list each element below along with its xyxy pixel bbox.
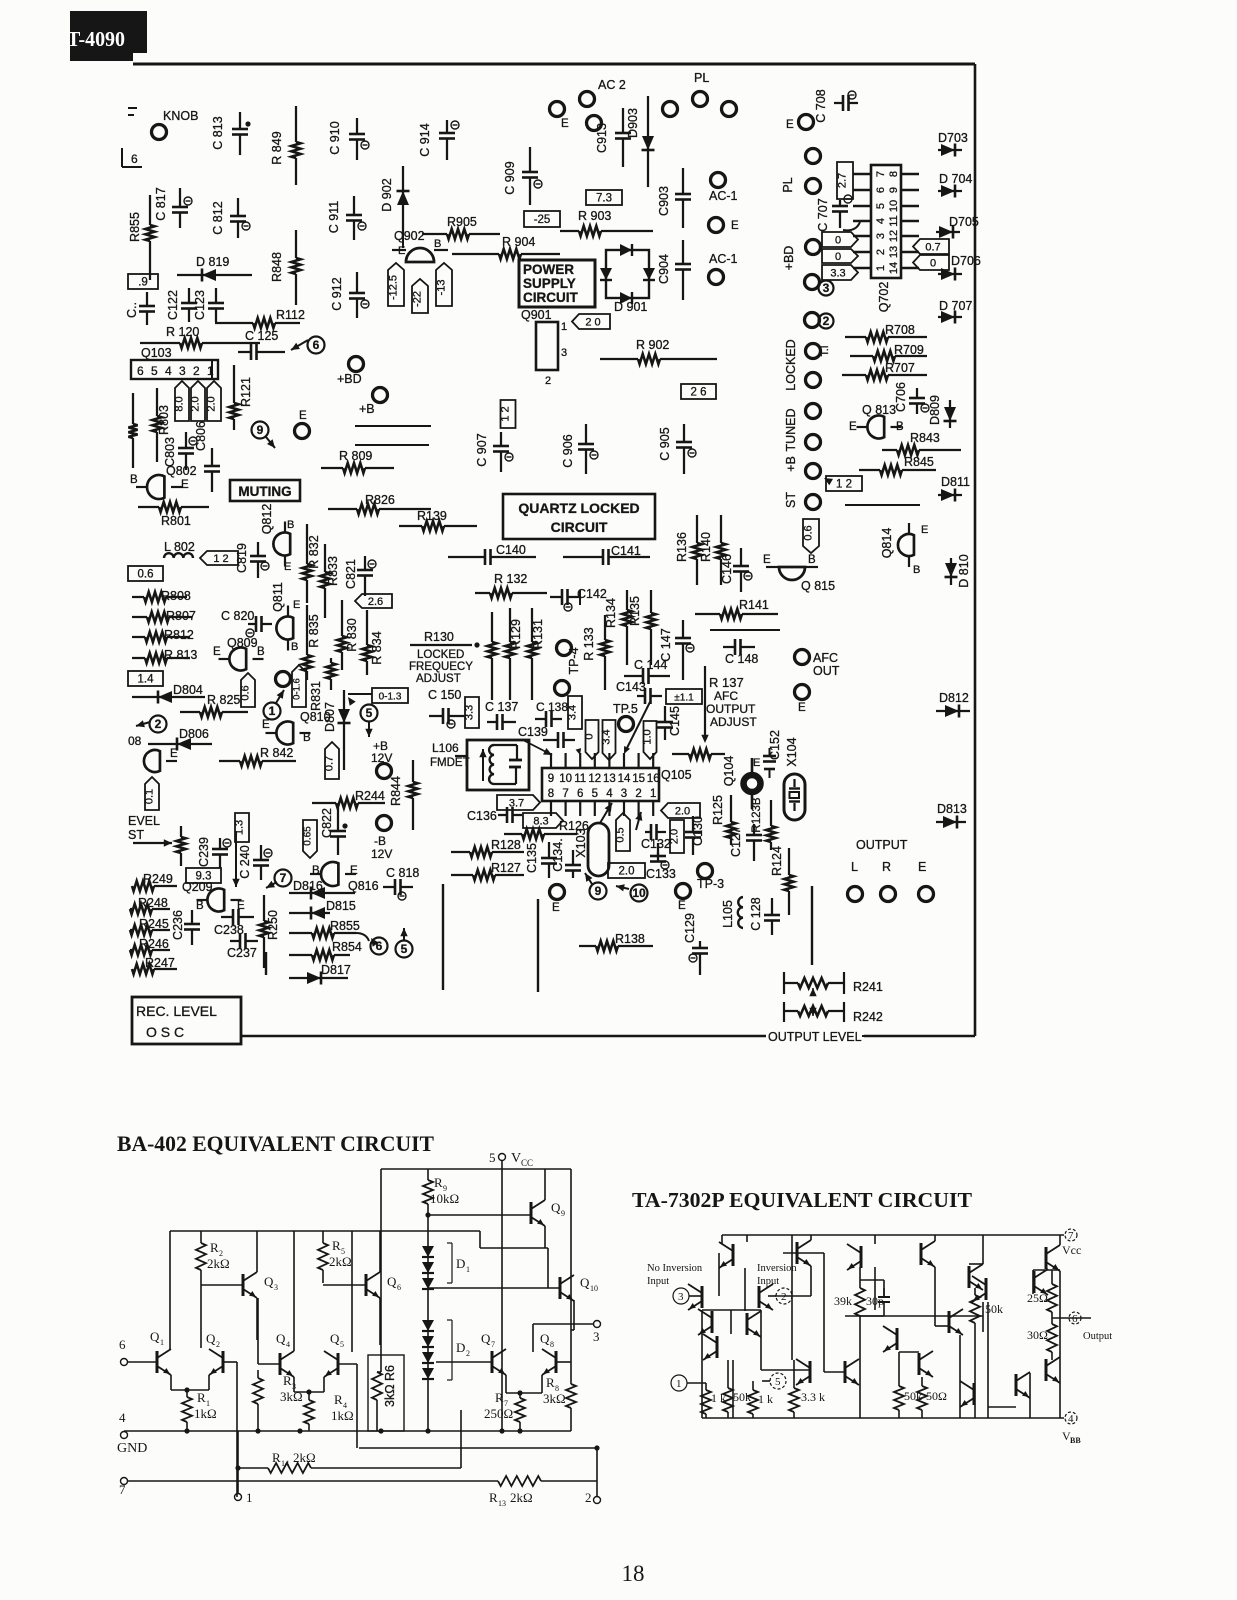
svg-text:.9: .9 [138,277,148,289]
resistor R813 [132,648,197,663]
inductor L802 [164,540,195,558]
value box 0.7 [913,239,949,254]
svg-text:E: E [678,900,686,912]
svg-text:C135: C135 [525,843,539,873]
transistor Q8 [540,1331,571,1375]
svg-text:6: 6 [397,1283,401,1292]
svg-text:E: E [753,757,760,769]
capacitor C148 [723,639,758,666]
value box 0.1 [144,777,160,810]
svg-text:10: 10 [888,200,900,212]
capacitor C125 [238,329,285,360]
svg-text:R136: R136 [675,532,689,562]
capacitor C912 [330,272,369,318]
pad +B 12V [371,739,392,779]
svg-text:C..: C.. [125,302,139,318]
svg-text:ST: ST [784,492,798,508]
resistor R134 [604,590,632,665]
svg-text:T-4090: T-4090 [67,27,125,51]
transistor Q2 [201,1283,223,1375]
capacitor C124 cut [125,292,155,325]
crystal X103 [574,823,609,876]
diode D819 [177,255,252,282]
pad -B 12V [371,816,392,862]
svg-text:14: 14 [618,773,631,785]
page number 18 [622,1561,645,1586]
resistor R843 [882,431,961,455]
pad E muting [295,410,310,439]
resistor R123B [751,797,776,850]
value box 0 b [822,249,858,263]
svg-text:D903: D903 [626,108,640,138]
svg-text:10kΩ: 10kΩ [430,1191,459,1206]
capacitor C141 [563,544,650,565]
svg-text:1: 1 [676,1378,682,1390]
diode D813 [936,802,967,829]
svg-text:2kΩ: 2kΩ [207,1256,230,1271]
diode D811 [938,475,970,502]
value box 20 [572,314,610,329]
svg-text:1.4: 1.4 [138,674,155,686]
svg-text:C913: C913 [595,123,609,153]
svg-text:C146: C146 [720,554,734,584]
title block T-4090 [67,11,147,61]
svg-text:Q814: Q814 [880,528,894,559]
resistor R845 [859,455,936,475]
svg-text:PL: PL [781,177,795,192]
pad +BD right [782,240,821,271]
svg-text:3.4: 3.4 [567,705,579,720]
value box .9 [128,274,158,289]
svg-text:2kΩ: 2kΩ [293,1450,316,1465]
svg-text:3.3: 3.3 [464,705,476,720]
svg-text:10: 10 [632,886,646,900]
svg-text:TP-3: TP-3 [697,877,724,891]
svg-text:13: 13 [498,1499,506,1508]
IC Q702 [853,165,919,312]
pad TUNED [784,408,821,451]
pad E q105 left [550,885,565,915]
wire bd1 [355,425,431,427]
transistor Q209 [182,880,245,912]
svg-text:FMDET: FMDET [430,757,470,769]
svg-text:+B: +B [359,402,375,416]
capacitor C911 [327,196,366,240]
ta transistor t8 [1034,1269,1048,1295]
svg-text:1: 1 [246,1490,253,1505]
svg-text:9: 9 [548,773,554,785]
svg-text:D807: D807 [323,702,337,732]
resistor R855b [289,919,369,941]
svg-text:D 704: D 704 [939,172,972,186]
svg-text:C 707: C 707 [816,198,830,231]
title TA-7302P [632,1188,972,1212]
value box 1.1 [666,689,702,704]
svg-text:Q: Q [150,1329,160,1344]
resistor R126 [504,819,589,839]
svg-text:2 0: 2 0 [585,317,600,329]
svg-text:C236: C236 [171,910,185,940]
svg-text:8: 8 [550,1340,554,1349]
svg-text:E: E [918,860,926,874]
svg-text:E: E [798,702,806,714]
board outline bottom border [241,1035,975,1037]
resistor R121 [229,365,253,430]
capacitor C708 [814,89,858,122]
svg-text:AC-1: AC-1 [709,252,738,266]
ta resistor 50k upper [970,1288,1003,1418]
resistor R809 [321,449,394,473]
svg-text:R833: R833 [326,556,340,586]
svg-text:C803: C803 [163,437,177,467]
transistor Q9 [425,1169,565,1248]
svg-text:TP.5: TP.5 [613,702,638,716]
capacitor C706 [894,382,929,414]
svg-text:R 904: R 904 [502,235,535,249]
capacitor C819 [235,542,269,578]
svg-text:C821: C821 [344,559,358,589]
resistor R826 [328,493,431,514]
label no inversion input [647,1263,703,1287]
svg-text:3kΩ: 3kΩ [280,1389,303,1404]
pointer 1 [264,690,285,720]
ta transistor t3 [847,1244,861,1270]
svg-text:0-1.6: 0-1.6 [292,678,303,700]
svg-text:1 2: 1 2 [500,406,512,421]
resistor R140 [699,515,726,585]
svg-text:E: E [849,421,857,433]
capacitor C128 [749,897,780,935]
svg-text:1: 1 [875,265,887,271]
resistor R13 2k [489,1476,597,1508]
wire ta bottom rail [702,1417,1064,1419]
svg-text:2.0: 2.0 [619,866,635,878]
svg-text:R123B: R123B [751,797,763,832]
diode D704 [938,172,972,198]
node 6 cut box [122,148,142,167]
value box 3.3 mid [464,697,480,728]
svg-text:C134.: C134. [551,838,565,871]
svg-text:D: D [456,1256,465,1271]
svg-text:0.5: 0.5 [615,827,627,842]
svg-text:R: R [546,1375,555,1390]
IC Q105 [542,753,692,816]
svg-text:4: 4 [165,364,172,378]
svg-text:1: 1 [466,1265,470,1274]
capacitor C818 [383,866,419,900]
svg-text:8: 8 [888,171,900,177]
value box 12 left [200,551,238,565]
label OUTPUT LEVEL [768,1030,872,1044]
svg-text:39k: 39k [834,1294,852,1308]
svg-text:AFC: AFC [714,689,738,703]
resistor r137 body [672,749,725,759]
svg-text:D706: D706 [951,254,981,268]
svg-text:R: R [489,1490,498,1505]
svg-text:C 907: C 907 [475,433,489,466]
svg-text:E: E [786,119,794,131]
svg-text:-12.5: -12.5 [388,275,400,300]
svg-text:5: 5 [340,1340,344,1349]
transistor Q802 [130,464,197,499]
svg-text:R244: R244 [355,789,385,803]
capacitor C909 [503,147,542,205]
svg-text:D806: D806 [179,727,209,741]
value box 0.6 right [803,519,820,553]
capacitor C907 [475,432,513,472]
resistor R9 10k [423,1169,459,1243]
resistor R124 [770,846,794,915]
svg-text:B: B [312,865,320,877]
pad AFC OUT [795,650,840,679]
svg-text:B: B [434,238,441,250]
svg-text:C 125: C 125 [245,329,278,343]
svg-text:CC: CC [521,1158,533,1168]
terminal 1 [235,1431,253,1505]
resistor R249 [132,872,177,891]
transistor Q4 [258,1231,294,1377]
svg-text:Q: Q [481,1331,491,1346]
svg-text:D804: D804 [173,683,203,697]
svg-text:Q105: Q105 [661,768,692,782]
svg-text:R708: R708 [885,323,915,337]
svg-text:R138: R138 [615,932,645,946]
value box 7.3 [586,190,622,205]
svg-text:4: 4 [875,218,887,224]
capacitor C136 [467,807,522,823]
svg-text:C127: C127 [729,827,743,857]
svg-text:3.4: 3.4 [601,729,613,744]
transistor Q816 [293,862,379,893]
svg-text:C 912: C 912 [330,277,344,310]
svg-text:2.0: 2.0 [675,806,690,818]
svg-text:PL: PL [694,71,709,85]
ta transistor t5 [969,1264,983,1290]
transistor Q812 [260,504,294,573]
svg-text:D811: D811 [941,475,970,489]
wire q5 base net [338,1364,357,1448]
capacitor C910 [328,118,369,160]
value box 2.6 [355,594,392,608]
transistor Q814 [880,523,928,576]
svg-text:D703: D703 [938,131,968,145]
capacitor C913 [595,108,631,167]
resistor R903 [560,209,653,236]
value box -12.5 [388,263,405,306]
label OUTPUT [856,838,908,852]
value box 0-1.6 [292,665,307,707]
svg-text:6: 6 [875,187,887,193]
capacitor C133 [646,843,676,881]
ta transistor t2 [797,1240,811,1266]
value box 8.3 [523,813,563,828]
svg-text:-B: -B [374,834,386,848]
pad out R [881,860,896,902]
pad AC2 [580,78,626,107]
svg-text:E: E [170,748,178,760]
svg-text:CIRCUIT: CIRCUIT [523,290,578,305]
pointer 5 mid [361,705,378,738]
svg-text:R250: R250 [266,910,280,940]
pointer 5b [396,928,413,958]
svg-text:5: 5 [366,706,373,720]
resistor R825 [180,693,248,717]
capacitor C906 [561,424,598,474]
svg-text:Q812: Q812 [260,504,274,535]
svg-text:1: 1 [650,788,656,800]
svg-text:C 820: C 820 [221,609,254,623]
value box 0.7 mid [324,742,340,779]
pad +B right [784,456,821,478]
resistor R842 [219,746,296,766]
svg-text:0.1: 0.1 [144,789,156,804]
pad LOCKED [784,339,821,390]
svg-text:C903: C903 [657,186,671,216]
preset R242 [784,1002,883,1024]
svg-text:3.7: 3.7 [509,798,524,810]
svg-text:L 802: L 802 [164,540,195,554]
svg-text:R707: R707 [885,361,915,375]
svg-text:R 132: R 132 [494,572,527,586]
svg-text:C 708: C 708 [814,89,828,122]
pad ac3 [587,116,602,131]
pad TP-4 bottom [555,681,570,696]
svg-text:L: L [851,860,858,874]
svg-text:1: 1 [269,704,276,718]
terminal 2 input [768,1288,792,1304]
svg-text:5: 5 [489,1150,496,1165]
svg-text:Q: Q [276,1331,286,1346]
capacitor C139 cut [518,725,575,755]
power supply circuit box [519,260,595,307]
resistor R125 [711,795,736,845]
svg-text:C 137: C 137 [485,700,518,714]
resistor R130 adjust [409,612,497,700]
resistor R904 [452,235,560,259]
svg-text:Vcc: Vcc [1062,1243,1081,1257]
capacitor C134 [551,838,581,878]
label inversion input [757,1263,797,1287]
svg-text:3: 3 [823,281,830,295]
svg-text:3: 3 [274,1283,278,1292]
svg-text:3: 3 [179,364,186,378]
svg-text:R844: R844 [389,776,403,806]
wire ta top rail [722,1234,1064,1236]
svg-text:13: 13 [603,773,616,785]
wire vert r250 [265,952,267,975]
svg-text:T.I: T.I [819,345,831,356]
capacitor C238 [214,909,254,937]
capacitor C143 [616,680,662,704]
svg-text:7: 7 [491,1340,495,1349]
wire q1q2 emitters [171,1375,209,1393]
value box 1.3 left [234,813,250,842]
svg-text:1: 1 [160,1338,164,1347]
capacitor C150 [428,688,465,728]
svg-text:R241: R241 [853,980,883,994]
capacitor C803 [163,432,197,470]
svg-text:R128: R128 [491,838,521,852]
svg-text:ADJUST: ADJUST [416,673,461,685]
svg-text:2: 2 [585,1490,592,1505]
terminal 5 Vcc [489,1150,533,1431]
resistor R708 [845,323,927,342]
resistor R801 [138,502,209,528]
svg-text:C706: C706 [894,382,908,412]
svg-text:2kΩ: 2kΩ [329,1254,352,1269]
svg-text:Input: Input [647,1276,669,1287]
transistor Q809 [213,636,265,670]
svg-text:D 901: D 901 [614,300,647,314]
svg-text:Q: Q [206,1331,216,1346]
wire tp5 line [624,702,650,754]
value box 0.5 [615,813,631,851]
wire mid net [357,1445,600,1497]
svg-text:E: E [181,479,189,491]
resistor R812 [132,628,194,642]
svg-text:0.6: 0.6 [803,525,815,540]
terminal 4 GND [117,1410,147,1456]
svg-text:ADJUST: ADJUST [710,715,757,729]
svg-text:1kΩ: 1kΩ [331,1408,354,1423]
resistor R902 [600,338,717,364]
svg-text:5: 5 [592,788,598,800]
svg-text:C123: C123 [193,290,207,320]
terminal 3 [533,1321,601,1353]
ta transistor t16 [919,1351,933,1377]
svg-text:AC 2: AC 2 [598,78,626,92]
pad tuned top [806,404,821,419]
wire ST arrow [133,839,172,846]
pad 01.6 [276,672,291,687]
wire top rail [381,1169,571,1345]
wire D902 to Q902 [402,232,404,248]
wire second rail [170,1231,548,1288]
pad E c708 [786,115,814,132]
resistor R4 1k [304,1392,354,1431]
svg-text:0.65: 0.65 [303,826,314,846]
resistor R848 [270,230,301,305]
terminal 3 input [673,1288,702,1304]
value box 0.6 left [128,566,163,581]
svg-text:08: 08 [128,734,142,748]
svg-text:MUTING: MUTING [238,484,291,499]
wire below 12 [845,504,920,506]
svg-text:R 825: R 825 [207,693,240,707]
resistor R905 [422,215,500,239]
svg-text:3: 3 [678,1291,684,1303]
ta resistor 50ohm [917,1377,947,1418]
diode D807 [323,690,372,770]
svg-text:R: R [332,1238,341,1253]
value box 2.7 [837,162,854,199]
resistor R854 [289,940,362,960]
capacitor C129 [683,913,708,975]
svg-text:Q816: Q816 [348,879,379,893]
pad TP-3 [697,864,724,892]
capacitor C132 [641,824,671,851]
capacitor C123 [193,288,224,322]
svg-text:6: 6 [376,939,383,953]
value box 9.3 [186,868,221,883]
crystal X104 [784,737,805,820]
svg-text:R 834: R 834 [370,631,384,664]
svg-text:-25: -25 [534,214,551,226]
pointer 6b [371,938,388,955]
svg-text:30Ω: 30Ω [1027,1328,1048,1342]
svg-text:0: 0 [835,235,841,247]
wire q4q5 emitters [294,1377,324,1395]
